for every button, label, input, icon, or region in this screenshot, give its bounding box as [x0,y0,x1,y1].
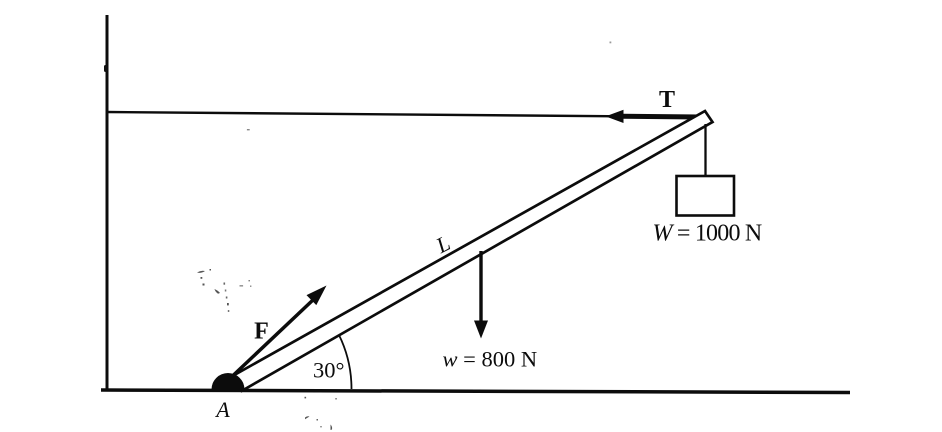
svg-text:w = 800 N: w = 800 N [443,347,538,372]
svg-text:A: A [214,397,230,422]
svg-text:30°: 30° [313,358,345,383]
svg-text:F: F [254,319,269,345]
svg-text:W = 1000 N: W = 1000 N [653,221,762,247]
svg-text:T: T [659,87,675,113]
